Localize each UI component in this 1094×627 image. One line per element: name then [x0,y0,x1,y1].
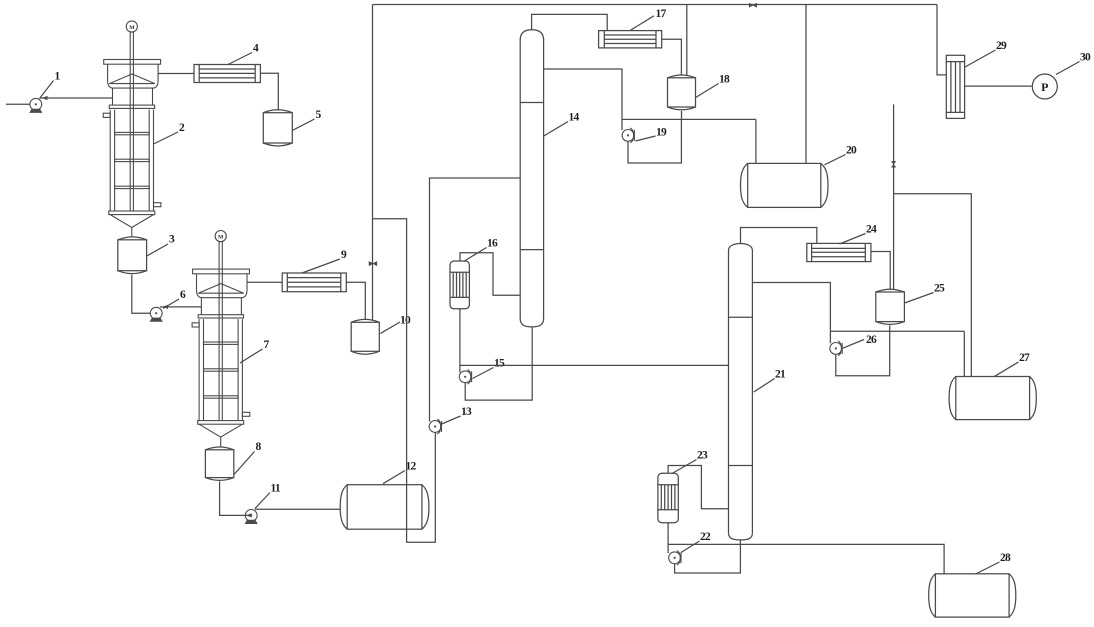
pump 26 loop pipe [836,331,890,375]
svg-text:18: 18 [719,74,730,86]
column 21 overhead pipe to exchanger 24 [741,228,817,244]
left header drop pipe to tank 10 [372,5,374,321]
pump 19 loop pipe [628,119,681,163]
header drop pipe to vessel 18 [686,5,688,76]
label 21 [754,369,786,393]
vessel 18 outlet pipe [681,111,683,120]
label 1 [40,71,61,99]
svg-text:8: 8 [256,441,262,453]
pressure gauge 30 [1032,74,1057,99]
branch pipe to column 14 feed loop [373,219,436,543]
pipe to tank 27 [963,331,965,376]
label 8 [234,441,262,475]
label 6 [163,289,186,309]
pipe vessel 8 to pump 11 [220,481,250,515]
valve on top header [749,3,756,7]
vessel 3 [118,237,147,274]
svg-text:11: 11 [271,483,281,495]
vessel 5 [263,110,292,146]
label 18 [696,74,730,98]
svg-text:27: 27 [1019,352,1030,364]
label 25 [905,283,945,304]
heat exchanger 24 [807,243,871,261]
distillate header pipe [830,330,964,332]
svg-text:2: 2 [179,122,185,134]
pump 1 discharge arrowhead [42,96,48,100]
svg-text:19: 19 [656,127,667,139]
reboiler 23 downcomer pipe [667,523,669,553]
label 9 [302,249,347,273]
svg-text:17: 17 [656,8,667,20]
heat exchanger 4 [194,65,260,83]
pump 15 [459,370,471,384]
pump 11 [245,510,258,524]
svg-text:13: 13 [461,406,472,418]
pipe pump 13 to column 14 feed [430,178,521,422]
header pipe to condenser 29 [937,5,946,75]
vessel 25 [876,289,905,324]
reboiler 16 [450,261,469,309]
column 14 [520,30,543,327]
tank 12 [340,485,429,530]
svg-text:15: 15 [494,358,505,370]
column 14 overhead pipe to exchanger 17 [532,14,608,30]
column 21 side draw pipe to pump 26 [752,283,830,344]
svg-text:9: 9 [341,249,347,261]
label 17 [631,8,667,30]
tank 28 [929,574,1016,617]
pipe exchanger 4 to vessel 5 [260,73,278,110]
label 20 [825,145,858,165]
svg-text:26: 26 [866,334,877,346]
label 15 [473,358,506,379]
header drop pipe to tank 20 [805,5,807,164]
svg-text:22: 22 [700,531,711,543]
label 22 [681,531,711,553]
column 21 [729,244,753,540]
condenser 29 drain pipe to vessel 25 [893,104,895,289]
vessel 10 [351,319,379,354]
reboiler 16 downcomer pipe [459,309,461,373]
svg-text:23: 23 [697,450,708,462]
label 29 [965,40,1007,67]
feed pipe to column 21 [460,364,729,366]
svg-text:29: 29 [996,40,1007,52]
tank 27 [949,377,1036,420]
pipe reactor 2 to vessel 3 [131,235,133,237]
pipe reactor 2 to exchanger 4 [158,73,194,75]
reactor 7 [192,231,250,446]
condenser 29 [946,55,964,118]
label 23 [672,450,708,474]
vessel 18 [668,75,696,110]
svg-text:10: 10 [400,315,411,327]
pump 15 loop pipe to column 14 bottom [465,327,532,400]
pipe exchanger 24 to vessel 25 [871,252,890,290]
svg-text:28: 28 [1000,552,1011,564]
reactor 7 outlet pipe to vessel 8 [220,445,222,448]
pump 6 discharge arrowhead [163,305,169,309]
pump 1 [29,98,42,113]
svg-text:25: 25 [934,283,945,295]
valve on drain pipe [891,161,895,167]
valve on left drop pipe [369,261,377,265]
pump 22 [669,551,681,565]
heat exchanger 9 [282,273,346,292]
heat exchanger 17 [599,31,662,48]
pipe to tank 20 left inlet [755,119,757,163]
feed line inlet [6,103,30,105]
label 16 [464,238,499,262]
pipe reactor 7 to exchanger 9 [247,281,282,283]
svg-text:6: 6 [180,289,186,301]
top header pipe [373,4,938,6]
svg-text:4: 4 [253,43,259,55]
reboiler 23 vapor return pipe to column 21 [668,466,729,509]
label 5 [292,109,321,131]
reboiler 23 [658,473,678,522]
svg-text:1: 1 [55,71,61,83]
label 19 [636,127,668,142]
pump 22 loop pipe to column 21 bottom [675,540,741,573]
label 27 [994,352,1030,377]
label 24 [840,224,878,245]
reactor 2 [103,21,161,236]
condensate header pipe [622,118,756,120]
pump 19 [622,128,634,142]
svg-text:16: 16 [487,238,498,250]
vessel 25 outlet pipe [889,325,891,331]
label 13 [441,406,473,425]
label 11 [255,483,281,509]
pipe exchanger 9 to tank 10 [346,282,365,320]
svg-text:P: P [1041,80,1048,94]
svg-text:20: 20 [846,145,857,157]
svg-text:24: 24 [866,224,877,236]
bottoms product pipe to tank 28 [668,544,944,573]
label 4 [228,43,259,65]
label 10 [380,315,411,334]
svg-text:5: 5 [316,109,322,121]
svg-text:21: 21 [775,369,786,381]
pump 13 [429,419,441,433]
svg-text:30: 30 [1080,52,1091,64]
reboiler 16 vapor return pipe to column 14 [460,253,520,296]
label 3 [147,234,175,257]
pump 6 discharge pipe to reactor 7 [160,306,201,308]
label 26 [842,334,878,349]
pipe exchanger 17 to vessel 18 [662,39,682,75]
pump 26 [830,341,842,355]
label 30 [1056,52,1091,75]
tank 20 [741,163,829,207]
svg-text:7: 7 [264,339,270,351]
reflux pipe from column 14 [544,69,622,130]
vessel 8 [205,447,233,480]
label 12 [383,461,417,484]
pipe vessel 3 to pump 6 [132,275,150,313]
label 28 [976,552,1012,574]
label 14 [544,112,580,137]
pipe condenser 29 to gauge 30 [965,85,1032,87]
branch pipe to tank 27 [894,194,972,377]
svg-text:3: 3 [169,234,175,246]
pump 11 discharge pipe to tank 12 [255,508,341,510]
pump 1 discharge pipe to reactor 2 [40,97,113,99]
label 2 [154,122,186,144]
svg-text:14: 14 [569,112,580,124]
label 7 [240,339,270,363]
pump 6 [150,307,163,322]
pump 11 inlet arrowhead [246,513,252,517]
